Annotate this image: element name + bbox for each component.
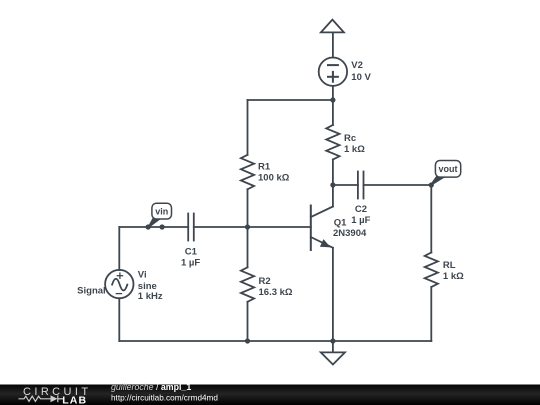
wire V2 to node: [332, 86, 334, 100]
svg-text:1 kΩ: 1 kΩ: [443, 271, 464, 282]
resistor R1: [241, 155, 254, 190]
wire vin row left: [119, 226, 188, 228]
resistor Rc: [332, 100, 334, 125]
svg-text:1 kΩ: 1 kΩ: [344, 144, 365, 155]
svg-text:http://circuitlab.com/crmd4md: http://circuitlab.com/crmd4md: [111, 394, 218, 403]
wire arrow to V2: [332, 32, 334, 57]
node vin dots: [146, 224, 151, 229]
footer bar: [0, 385, 540, 405]
ground: [332, 341, 334, 352]
svg-text:RL: RL: [443, 260, 456, 271]
node junction top: [330, 97, 335, 102]
node junction collector: [330, 182, 335, 187]
wire left rail: [118, 227, 120, 270]
capacitor C2: [357, 172, 359, 199]
svg-text:guilleroche / ampl_1: guilleroche / ampl_1: [111, 382, 191, 392]
wire C2 row: [333, 184, 358, 186]
svg-text:Vi: Vi: [138, 270, 147, 281]
svg-text:2N3904: 2N3904: [333, 228, 367, 239]
svg-text:Q1: Q1: [334, 217, 347, 228]
node junction base divider: [245, 224, 250, 229]
svg-text:100 kΩ: 100 kΩ: [258, 172, 290, 183]
svg-text:1 kHz: 1 kHz: [138, 291, 163, 302]
svg-text:Signal: Signal: [77, 286, 106, 297]
transistor Q1: [310, 206, 312, 251]
flag vin: [148, 217, 162, 229]
resistor R2: [247, 227, 249, 267]
svg-text:R1: R1: [258, 161, 271, 172]
wire C2 to vout: [364, 184, 432, 186]
svg-text:C2: C2: [355, 204, 367, 215]
svg-text:vin: vin: [155, 207, 168, 217]
svg-text:vout: vout: [439, 164, 458, 174]
node junction R2 bottom: [245, 338, 250, 343]
svg-text:1 µF: 1 µF: [181, 257, 200, 268]
svg-text:LAB: LAB: [62, 394, 87, 405]
svg-text:C1: C1: [185, 247, 198, 258]
svg-text:16.3 kΩ: 16.3 kΩ: [259, 287, 293, 298]
svg-text:V2: V2: [351, 60, 363, 71]
wire top rail: [248, 99, 333, 101]
voltage source V2: [319, 57, 347, 85]
wire bottom rail: [119, 340, 431, 342]
resistor RL: [430, 185, 432, 253]
svg-text:1 µF: 1 µF: [351, 215, 370, 226]
svg-text:Rc: Rc: [344, 133, 356, 144]
svg-text:10 V: 10 V: [351, 72, 371, 83]
footer logo wire: resistor + diode: [19, 395, 64, 402]
svg-text:R2: R2: [259, 276, 271, 287]
node vout junction: [429, 182, 434, 187]
source Vi: [105, 270, 133, 298]
capacitor C1: [187, 214, 189, 241]
node junction emitter/ground: [330, 338, 335, 343]
flag vout: [431, 175, 446, 186]
power supply arrow (VCC symbol): [321, 20, 344, 33]
wire R1 top: [247, 100, 249, 155]
wire Vi to bottom rail: [118, 298, 120, 341]
wire base: [248, 226, 311, 228]
